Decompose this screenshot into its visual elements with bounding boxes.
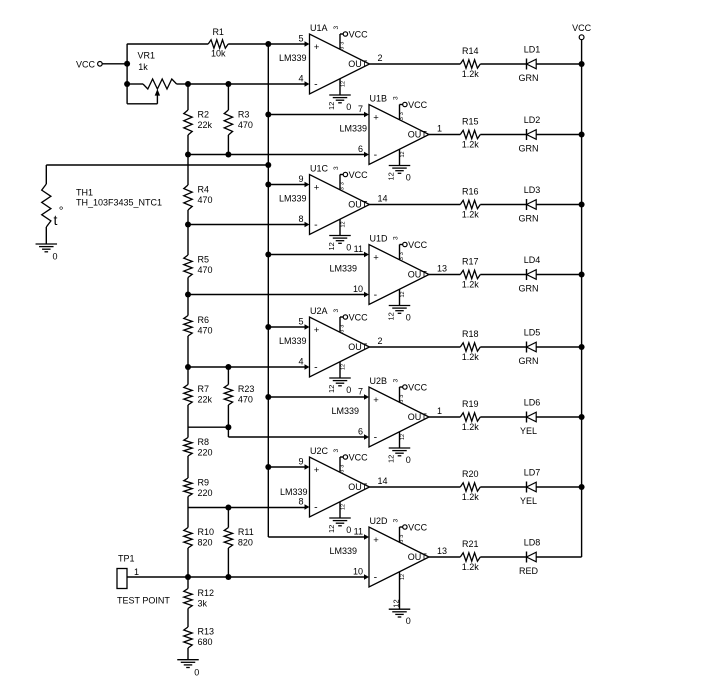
svg-text:VCC: VCC xyxy=(408,382,428,392)
svg-text:YEL: YEL xyxy=(520,426,537,436)
power pin 3 U2A VCC xyxy=(339,312,368,332)
svg-text:R6: R6 xyxy=(198,315,210,325)
svg-text:VCC: VCC xyxy=(349,452,369,462)
resistor R16 xyxy=(460,186,480,219)
junction R2 top xyxy=(185,81,191,87)
pin 10 U2D - input xyxy=(353,567,369,580)
junction node A tap y397 xyxy=(265,394,271,400)
svg-text:470: 470 xyxy=(198,326,213,336)
label ground net 0 U2C xyxy=(346,525,351,535)
svg-text:R9: R9 xyxy=(198,478,210,488)
LED LD7 xyxy=(520,468,540,506)
svg-text:3: 3 xyxy=(393,236,400,240)
svg-text:220: 220 xyxy=(198,448,213,458)
svg-text:12: 12 xyxy=(327,242,336,250)
svg-text:0: 0 xyxy=(406,173,411,183)
svg-text:LM339: LM339 xyxy=(329,264,357,274)
ground pin 12 U1B xyxy=(389,149,411,173)
svg-text:3: 3 xyxy=(339,187,345,190)
label pin 12 U2A xyxy=(327,385,336,393)
pin 4 U2A - input xyxy=(298,357,309,370)
svg-text:3: 3 xyxy=(339,42,345,45)
svg-text:12: 12 xyxy=(340,364,346,370)
svg-text:12: 12 xyxy=(340,504,346,510)
svg-text:+: + xyxy=(373,113,379,124)
pin 5 U2A + input xyxy=(298,317,309,330)
svg-text:4: 4 xyxy=(298,74,303,84)
svg-text:+: + xyxy=(314,42,320,53)
ground pin 12 U1A xyxy=(329,79,351,103)
svg-text:14: 14 xyxy=(378,476,388,486)
svg-text:TH1: TH1 xyxy=(76,187,93,197)
power terminal VCC (right) xyxy=(572,23,592,40)
pin 13 U2D output xyxy=(437,546,447,556)
label pin 12 U2B xyxy=(386,455,395,463)
ground pin 12 U2D xyxy=(389,572,411,617)
pin 7 U1B + input xyxy=(358,104,369,117)
svg-text:3: 3 xyxy=(399,395,405,398)
label ground net 0 U2B xyxy=(406,455,411,465)
wire LD2 to VCC rail xyxy=(536,134,581,136)
svg-text:9: 9 xyxy=(298,457,303,467)
junction rail LD2 xyxy=(579,132,585,138)
svg-text:LD1: LD1 xyxy=(524,45,541,55)
svg-text:3: 3 xyxy=(399,535,405,538)
svg-text:LD6: LD6 xyxy=(524,398,541,408)
pin 14 U1C output xyxy=(378,194,388,204)
wire ladder segment 11 xyxy=(187,648,189,660)
LED LD2 xyxy=(519,115,541,153)
svg-text:°: ° xyxy=(59,204,64,218)
svg-text:R11: R11 xyxy=(238,527,254,537)
resistor R11 xyxy=(224,527,254,548)
svg-text:470: 470 xyxy=(238,395,253,405)
svg-text:12: 12 xyxy=(327,385,336,393)
svg-text:R5: R5 xyxy=(198,255,210,265)
svg-text:12: 12 xyxy=(400,291,406,297)
pin 10 U1D - input xyxy=(353,284,369,297)
svg-text:+: + xyxy=(314,465,320,476)
svg-text:LD5: LD5 xyxy=(524,328,541,338)
label pin 12 U2D xyxy=(392,599,401,607)
label U2D designator xyxy=(370,516,400,526)
svg-text:1.2k: 1.2k xyxy=(462,280,480,290)
svg-text:3: 3 xyxy=(339,325,345,328)
LED LD6 xyxy=(520,398,540,436)
label U1C designator xyxy=(310,163,340,173)
pin 6 U1B - input xyxy=(358,144,369,157)
svg-text:TP1: TP1 xyxy=(118,554,135,564)
svg-text:10: 10 xyxy=(353,284,363,294)
svg-text:470: 470 xyxy=(238,120,253,130)
svg-text:820: 820 xyxy=(238,538,253,548)
junction R11 top xyxy=(225,505,231,511)
svg-text:-: - xyxy=(374,149,378,161)
wire U1B output xyxy=(429,134,460,136)
wire U2C output xyxy=(370,486,461,488)
svg-text:VCC: VCC xyxy=(408,240,428,250)
resistor R17 xyxy=(460,256,480,289)
junction VCC/R1/VR1 xyxy=(124,61,130,67)
label ground net 0 U2D xyxy=(406,616,411,626)
wire LD3 to VCC rail xyxy=(536,204,581,206)
ground TH1 xyxy=(36,244,58,262)
svg-text:-: - xyxy=(374,572,378,584)
junction node A tap y114.5 xyxy=(265,112,271,118)
svg-text:U1B: U1B xyxy=(370,93,388,103)
svg-text:LM339: LM339 xyxy=(331,406,359,416)
pin 5 U1A + input xyxy=(298,34,309,47)
junction rail LD7 xyxy=(579,484,585,490)
svg-text:0: 0 xyxy=(406,616,411,626)
wire R3 leads xyxy=(227,84,229,155)
svg-text:0: 0 xyxy=(346,525,351,535)
wire TH1 to node A xyxy=(46,164,268,166)
svg-text:0: 0 xyxy=(53,252,58,262)
svg-text:1.2k: 1.2k xyxy=(462,562,480,572)
wire LD7 to VCC rail xyxy=(536,486,581,488)
svg-text:1.2k: 1.2k xyxy=(462,69,480,79)
wire tap row U2A- pin4 xyxy=(188,366,306,368)
wire tap row U1C- pin8 xyxy=(188,224,306,226)
resistor R14 xyxy=(460,46,480,79)
resistor R21 xyxy=(460,539,480,572)
wire ladder segment 1 xyxy=(187,84,189,110)
svg-text:3: 3 xyxy=(393,519,400,523)
thermistor TH1 xyxy=(42,165,162,244)
svg-text:0: 0 xyxy=(194,667,199,677)
svg-text:0: 0 xyxy=(346,243,351,253)
wire tap row U2B- pin6 xyxy=(228,436,365,438)
wire tap row U1D- pin10 xyxy=(188,294,365,296)
wire R21 to LD8 xyxy=(480,556,526,558)
potentiometer VR1 xyxy=(127,50,188,103)
pin 9 U1C + input xyxy=(298,174,309,187)
pin 14 U2C output xyxy=(378,476,388,486)
wire LD6 to VCC rail xyxy=(536,416,581,418)
svg-text:22k: 22k xyxy=(198,120,213,130)
wire R23 jog to U2B- xyxy=(188,427,228,437)
op-amp U1B (LM339 comparator) xyxy=(369,105,429,165)
svg-text:12: 12 xyxy=(340,81,346,87)
junction node A tap y184.5 xyxy=(265,182,271,188)
svg-text:1: 1 xyxy=(437,406,442,416)
svg-text:U1D: U1D xyxy=(370,233,389,243)
svg-text:12: 12 xyxy=(400,151,406,157)
label ground net 0 U1D xyxy=(406,313,411,323)
svg-text:+: + xyxy=(314,325,320,336)
svg-text:RED: RED xyxy=(519,566,539,576)
svg-text:OUT: OUT xyxy=(408,412,428,422)
svg-text:GRN: GRN xyxy=(519,356,539,366)
svg-text:U1C: U1C xyxy=(310,163,329,173)
resistor R12 xyxy=(184,588,214,609)
wire + input row y254.5 xyxy=(268,254,365,256)
svg-text:22k: 22k xyxy=(198,395,213,405)
svg-text:2: 2 xyxy=(378,336,383,346)
junction R6/R7 tap xyxy=(185,364,191,370)
svg-text:-: - xyxy=(374,432,378,444)
svg-text:GRN: GRN xyxy=(519,143,539,153)
svg-text:12: 12 xyxy=(327,102,336,110)
svg-text:VCC: VCC xyxy=(408,100,428,110)
svg-text:R12: R12 xyxy=(198,588,215,598)
svg-text:820: 820 xyxy=(198,538,213,548)
resistor R20 xyxy=(460,469,480,502)
svg-text:R1: R1 xyxy=(212,27,224,37)
label ground net 0 U2A xyxy=(346,385,351,395)
svg-text:R20: R20 xyxy=(462,469,479,479)
svg-text:3: 3 xyxy=(339,465,345,468)
svg-text:9: 9 xyxy=(298,174,303,184)
svg-text:13: 13 xyxy=(437,264,447,274)
wire tap row U1B- pin6 xyxy=(188,154,365,156)
junction TH1/node A xyxy=(265,162,271,168)
pin 6 U2B - input xyxy=(358,427,369,440)
pin 11 U2D + input xyxy=(354,527,369,540)
wire + input row y114.5 xyxy=(268,114,365,116)
svg-text:R2: R2 xyxy=(198,110,210,120)
wire U2A output xyxy=(370,346,461,348)
power pin 3 U2D VCC xyxy=(399,522,428,542)
svg-text:3: 3 xyxy=(333,309,340,313)
svg-text:R16: R16 xyxy=(462,186,479,196)
svg-text:3: 3 xyxy=(339,330,345,333)
svg-text:3: 3 xyxy=(399,112,405,115)
svg-text:1: 1 xyxy=(134,567,139,577)
svg-text:10k: 10k xyxy=(211,49,226,59)
svg-text:OUT: OUT xyxy=(348,59,368,69)
svg-text:6: 6 xyxy=(358,427,363,437)
wire R11 leads xyxy=(227,508,229,578)
svg-text:+: + xyxy=(373,253,379,264)
svg-text:R23: R23 xyxy=(238,384,255,394)
ground pin 12 U2C xyxy=(329,502,351,526)
pin 1 U2B output xyxy=(437,406,442,416)
label U2A LM339 xyxy=(279,336,307,346)
pin 8 U1C - input xyxy=(298,214,309,227)
ground pin 12 U1C xyxy=(329,219,351,243)
label U2B designator xyxy=(370,376,400,386)
wire + input row y397 xyxy=(268,396,365,398)
wire U1A output xyxy=(370,63,461,65)
svg-text:12: 12 xyxy=(400,574,406,580)
label pin 12 U1C xyxy=(327,242,336,250)
svg-text:R3: R3 xyxy=(238,110,250,120)
svg-text:OUT: OUT xyxy=(408,130,428,140)
junction node A tap y327 xyxy=(265,324,271,330)
svg-text:R8: R8 xyxy=(198,437,210,447)
wire + input row y327 xyxy=(268,326,305,328)
svg-text:LM339: LM339 xyxy=(339,124,367,134)
svg-text:8: 8 xyxy=(298,497,303,507)
wire ladder segment 4 xyxy=(187,278,189,316)
junction R4/R5 tap xyxy=(185,222,191,228)
ground pin 12 U2A xyxy=(329,362,351,386)
svg-text:4: 4 xyxy=(298,357,303,367)
svg-text:-: - xyxy=(314,219,318,231)
svg-text:GRN: GRN xyxy=(519,213,539,223)
label U1A LM339 xyxy=(279,53,307,63)
wire LD8 to VCC rail xyxy=(536,556,581,558)
svg-text:OUT: OUT xyxy=(348,342,368,352)
test point TP1 xyxy=(117,554,170,606)
wire LD4 to VCC rail xyxy=(536,274,581,276)
svg-text:11: 11 xyxy=(354,244,363,254)
LED LD5 xyxy=(519,328,541,366)
pin 2 U2A output xyxy=(378,336,383,346)
wire ladder segment 5 xyxy=(187,336,189,385)
wire ladder segment 8 xyxy=(187,497,189,528)
wire U1D output xyxy=(429,274,460,276)
power pin 3 U2B VCC xyxy=(399,382,428,402)
resistor R5 xyxy=(184,255,213,278)
svg-text:12: 12 xyxy=(386,312,395,320)
svg-text:LM339: LM339 xyxy=(280,487,308,497)
svg-text:LM339: LM339 xyxy=(279,53,307,63)
svg-text:12: 12 xyxy=(392,599,401,607)
power pin 3 U2C VCC xyxy=(339,452,368,472)
label U1D LM339 xyxy=(329,264,357,274)
svg-text:3: 3 xyxy=(399,540,405,543)
pin 7 U2B + input xyxy=(358,387,369,400)
LED LD8 xyxy=(519,538,540,576)
junction node A / R1-U1A+ xyxy=(265,41,271,47)
svg-text:12: 12 xyxy=(327,525,336,533)
svg-text:LM339: LM339 xyxy=(329,546,357,556)
junction R10 bottom xyxy=(185,574,191,580)
wire + input row y467 xyxy=(268,466,305,468)
wire U2D+ pin11 row xyxy=(268,536,365,538)
wire R15 to LD2 xyxy=(480,134,526,136)
svg-text:GRN: GRN xyxy=(519,73,539,83)
svg-text:R19: R19 xyxy=(462,399,479,409)
svg-text:OUT: OUT xyxy=(348,482,368,492)
ground pin 12 U1D xyxy=(389,289,411,313)
svg-text:R10: R10 xyxy=(198,527,215,537)
ground R13 (bottom of ladder) xyxy=(177,660,199,678)
junction rail LD6 xyxy=(579,414,585,420)
pin 4 U1A - input xyxy=(298,74,309,87)
svg-text:0: 0 xyxy=(346,385,351,395)
svg-text:R7: R7 xyxy=(198,384,210,394)
wire R1 row / U1A pin5 xyxy=(127,43,305,45)
resistor R10 xyxy=(184,527,214,548)
svg-text:2: 2 xyxy=(378,53,383,63)
wire ladder segment 9 xyxy=(187,548,189,589)
svg-text:VCC: VCC xyxy=(572,23,592,33)
svg-text:OUT: OUT xyxy=(408,552,428,562)
svg-text:7: 7 xyxy=(358,104,363,114)
svg-text:3: 3 xyxy=(399,257,405,260)
svg-text:-: - xyxy=(314,502,318,514)
power pin 3 U1A VCC xyxy=(339,29,368,49)
svg-text:7: 7 xyxy=(358,387,363,397)
svg-text:1: 1 xyxy=(437,124,442,134)
label pin 12 U2C xyxy=(327,525,336,533)
svg-text:3: 3 xyxy=(399,400,405,403)
svg-text:VCC: VCC xyxy=(408,522,428,532)
pin 1 U1B output xyxy=(437,124,442,134)
svg-text:5: 5 xyxy=(298,34,303,44)
svg-text:VCC: VCC xyxy=(349,29,369,39)
svg-text:3: 3 xyxy=(333,166,340,170)
resistor R19 xyxy=(460,399,480,432)
label U1C LM339 xyxy=(279,194,307,204)
svg-text:680: 680 xyxy=(198,637,213,647)
label U2D LM339 xyxy=(329,546,357,556)
wire U2D output xyxy=(429,556,460,558)
svg-text:-: - xyxy=(314,362,318,374)
resistor R15 xyxy=(460,116,480,149)
resistor R9 xyxy=(184,478,213,499)
svg-text:OUT: OUT xyxy=(348,200,368,210)
junction VR1 left terminal xyxy=(124,81,130,87)
op-amp U1C (LM339 comparator) xyxy=(310,175,370,235)
resistor R3 xyxy=(224,110,253,136)
svg-text:U2B: U2B xyxy=(370,376,388,386)
svg-text:TH_103F3435_NTC1: TH_103F3435_NTC1 xyxy=(76,198,162,208)
svg-text:1.2k: 1.2k xyxy=(462,352,480,362)
wire node A vertical (thermistor signal) xyxy=(267,44,269,537)
op-amp U2C (LM339 comparator) xyxy=(310,457,370,517)
svg-text:8: 8 xyxy=(298,214,303,224)
svg-text:12: 12 xyxy=(386,455,395,463)
wire tap row U1A- (VR1 row) xyxy=(188,83,306,85)
junction R11 bottom xyxy=(225,574,231,580)
svg-text:1k: 1k xyxy=(138,62,148,72)
label pin 12 U1A xyxy=(327,102,336,110)
svg-text:12: 12 xyxy=(386,172,395,180)
svg-text:LM339: LM339 xyxy=(279,194,307,204)
resistor R7 xyxy=(184,384,213,405)
wire LD5 to VCC rail xyxy=(536,346,581,348)
label U2B LM339 xyxy=(331,406,359,416)
svg-text:12: 12 xyxy=(400,434,406,440)
svg-text:VR1: VR1 xyxy=(138,50,156,60)
svg-text:U1A: U1A xyxy=(310,23,328,33)
svg-text:-: - xyxy=(374,289,378,301)
svg-text:3: 3 xyxy=(399,252,405,255)
wire VCC rail xyxy=(581,40,583,557)
svg-text:LD8: LD8 xyxy=(524,538,541,548)
resistor R1 xyxy=(208,27,228,58)
svg-text:R4: R4 xyxy=(198,185,210,195)
svg-text:LM339: LM339 xyxy=(279,336,307,346)
label pin 12 U1D xyxy=(386,312,395,320)
wire R17 to LD4 xyxy=(480,274,526,276)
label U1D designator xyxy=(370,233,400,243)
svg-text:GRN: GRN xyxy=(519,283,539,293)
wire U2B output xyxy=(429,416,460,418)
svg-text:3: 3 xyxy=(339,470,345,473)
svg-text:R15: R15 xyxy=(462,116,479,126)
junction node A tap y467 xyxy=(265,464,271,470)
power terminal VCC (left) xyxy=(76,60,127,70)
pin 2 U1A output xyxy=(378,53,383,63)
svg-text:3: 3 xyxy=(393,96,400,100)
svg-text:3: 3 xyxy=(333,26,340,30)
junction R23 bottom xyxy=(225,424,231,430)
svg-text:R14: R14 xyxy=(462,46,479,56)
op-amp U2A (LM339 comparator) xyxy=(310,317,370,377)
junction rail LD3 xyxy=(579,202,585,208)
label U2C LM339 xyxy=(280,487,308,497)
svg-text:1.2k: 1.2k xyxy=(462,492,480,502)
wire tap row U2D- pin10 (test point row) xyxy=(127,576,365,578)
label ground net 0 U1A xyxy=(346,102,351,112)
svg-text:YEL: YEL xyxy=(520,496,537,506)
